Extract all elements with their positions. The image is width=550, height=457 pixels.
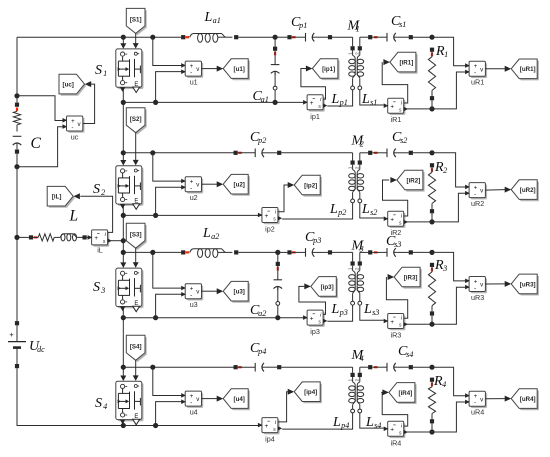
svg-text:+: +: [94, 235, 98, 242]
node row4 u- tap: [153, 423, 158, 428]
svg-text:+: +: [265, 423, 269, 430]
current measurement ip3: [303, 310, 327, 336]
svg-text:L: L: [332, 415, 341, 430]
wire iR1 signal: [382, 62, 408, 103]
svg-text:a1: a1: [261, 95, 269, 104]
node chain row4 bus: [121, 423, 126, 428]
svg-text:3: 3: [100, 286, 105, 295]
svg-text:[uc]: [uc]: [63, 82, 74, 89]
wire u1 - input: [156, 72, 186, 103]
capacitor Cs3: [372, 248, 432, 257]
label Ca2: [250, 303, 266, 318]
wire row1 top bus: [17, 36, 123, 38]
svg-text:iR4: iR4: [391, 438, 402, 447]
wire u1 + input: [153, 37, 185, 65]
svg-text:p2: p2: [257, 136, 266, 145]
current measurement ip2: [258, 208, 282, 234]
svg-text:-: -: [474, 191, 476, 198]
svg-text:4: 4: [442, 380, 446, 389]
svg-text:L: L: [361, 202, 370, 217]
node R1 bottom junction: [429, 106, 434, 111]
goto tag [ip2]: [288, 175, 322, 196]
wire dc bus middle segment: [16, 167, 18, 322]
label M3: [351, 239, 365, 254]
svg-text:[uR2]: [uR2]: [520, 187, 536, 194]
svg-text:a1: a1: [213, 16, 221, 25]
label R2: [434, 160, 447, 175]
label M4: [351, 348, 365, 363]
wire row1 to Cp: [275, 36, 287, 38]
goto tag [u1]: [217, 59, 250, 80]
label Cp1: [291, 15, 307, 30]
wire u2 + input: [153, 153, 185, 181]
wire gate S4: [133, 360, 139, 381]
voltage measurement uc: [63, 116, 85, 142]
svg-text:[u2]: [u2]: [234, 182, 245, 189]
wire uR3 + input: [432, 252, 469, 281]
goto tag [u3]: [217, 281, 250, 302]
svg-text:p3: p3: [312, 236, 321, 245]
switch S2: [116, 166, 144, 210]
wire uR2 + input: [432, 153, 469, 187]
svg-text:a2: a2: [211, 232, 219, 241]
svg-text:uR3: uR3: [471, 293, 484, 302]
svg-text:1: 1: [103, 69, 107, 78]
label S3: [93, 280, 105, 295]
transformer M2 secondary: [357, 153, 384, 218]
svg-text:-: -: [190, 185, 192, 192]
wire row2 bottom bus: [123, 214, 262, 216]
svg-text:p4: p4: [257, 347, 266, 356]
goto tag [iL]: [47, 186, 80, 207]
label Cp2: [250, 130, 266, 145]
svg-text:[iR4]: [iR4]: [399, 390, 413, 397]
svg-text:iL: iL: [97, 245, 103, 254]
svg-text:L: L: [204, 10, 213, 25]
voltage measurement uR4: [465, 391, 487, 416]
node Ca1 junction top: [273, 35, 278, 40]
svg-text:s1: s1: [399, 20, 406, 29]
label Lp1: [331, 92, 348, 107]
svg-text:[S3]: [S3]: [130, 231, 142, 238]
wire u3 - input: [156, 294, 186, 318]
wire u3 + input: [153, 252, 185, 288]
node row2 u+ tap: [150, 150, 155, 155]
inductor L: [54, 234, 91, 241]
wire iL signal: [80, 196, 112, 232]
voltage source Udc: [8, 321, 26, 368]
svg-text:u3: u3: [190, 300, 198, 309]
svg-text:p3: p3: [339, 308, 348, 317]
svg-text:[ip1]: [ip1]: [322, 66, 335, 73]
svg-text:ip3: ip3: [310, 327, 320, 336]
label Cs2: [392, 130, 407, 145]
wire uR3 - input: [404, 287, 470, 324]
pin label 1 M3: [347, 267, 352, 270]
goto tag [uR1]: [505, 59, 539, 80]
label M2: [351, 134, 365, 149]
wire uR2 - input: [404, 193, 470, 222]
node R3 bottom junction: [429, 322, 434, 327]
svg-text:2: 2: [443, 166, 447, 175]
wire chain S1-S2: [120, 87, 126, 165]
label S2: [93, 182, 105, 197]
wire dc bus bottom segment: [17, 368, 262, 425]
transformer M4 primary: [282, 367, 355, 429]
from tag [S1]: [126, 8, 146, 35]
wire u1 output: [202, 68, 218, 70]
wire row3 bottom bus: [123, 317, 307, 319]
label R1: [435, 44, 448, 59]
wire gate S1: [133, 33, 139, 48]
wire ip3 signal: [299, 286, 326, 314]
goto tag [uR3]: [505, 274, 539, 295]
wire uR4 + input: [432, 367, 469, 396]
svg-text:4: 4: [360, 354, 364, 363]
svg-text:ip4: ip4: [265, 435, 275, 444]
node iL chain junction: [121, 238, 126, 243]
node row3 u+ tap: [150, 250, 155, 255]
pin label 1 M4: [347, 378, 352, 381]
transformer M2 primary: [282, 153, 355, 219]
node Ca2 junction top: [275, 250, 280, 255]
label L: [69, 208, 79, 225]
wire row1 bottom bus: [123, 101, 307, 103]
svg-text:L: L: [331, 92, 340, 107]
wire iL to chain: [108, 240, 124, 242]
inductor La1: [190, 34, 275, 43]
svg-text:[iR1]: [iR1]: [400, 60, 414, 67]
svg-text:s4: s4: [406, 350, 413, 359]
svg-text:+: +: [390, 104, 394, 111]
goto tag [uc]: [59, 74, 91, 95]
svg-text:-: -: [474, 70, 476, 77]
svg-text:uR1: uR1: [471, 78, 484, 87]
svg-text:L: L: [329, 202, 338, 217]
svg-text:L: L: [202, 226, 211, 241]
svg-text:L: L: [363, 302, 372, 317]
capacitor C: [13, 136, 22, 166]
switch S3: [116, 268, 144, 312]
transformer M3 primary: [327, 252, 355, 321]
wire M1 to Cs: [360, 35, 378, 39]
wire u2 - input: [156, 187, 186, 215]
wire M2 to Cs: [360, 151, 378, 155]
inductor La2: [190, 249, 278, 258]
transformer M1 primary: [327, 37, 355, 106]
wire M3 to Cs: [360, 250, 378, 254]
voltage measurement u3: [181, 284, 203, 309]
node row1 u+ tap: [150, 35, 155, 40]
goto tag [ip1]: [306, 59, 340, 80]
svg-text:s2: s2: [400, 136, 407, 145]
wire row2 top bus: [123, 152, 233, 154]
svg-text:S: S: [93, 280, 100, 295]
wire uR4 - input: [404, 402, 470, 432]
wire gate S2: [133, 133, 139, 166]
label Ca1: [253, 89, 269, 104]
transformer M4 secondary: [357, 367, 384, 428]
svg-text:1: 1: [444, 50, 448, 59]
label Ls2: [361, 202, 377, 217]
wire row3 to Cp: [278, 251, 288, 253]
current measurement ip1: [303, 95, 327, 121]
capacitor Cs2: [372, 149, 432, 158]
label Lp2: [329, 202, 346, 217]
capacitor Cp2: [234, 149, 353, 158]
svg-text:[u4]: [u4]: [234, 396, 245, 403]
goto tag [iR1]: [383, 52, 417, 73]
svg-text:s4: s4: [374, 421, 381, 430]
voltage measurement uR2: [465, 183, 487, 208]
svg-text:p4: p4: [340, 421, 349, 430]
label Cs3: [386, 234, 401, 249]
svg-text:s1: s1: [370, 98, 377, 107]
wire ip1 signal: [301, 69, 326, 100]
wire u4 + input: [153, 367, 185, 395]
node Ca1 junction bottom: [273, 100, 278, 105]
wire uR4 output: [485, 398, 505, 400]
svg-text:p1: p1: [339, 98, 348, 107]
label Cp4: [250, 341, 266, 356]
wire uR1 output: [485, 68, 505, 70]
svg-text:L: L: [365, 415, 374, 430]
capacitor Ca2: [274, 252, 283, 317]
label Cp3: [305, 230, 321, 245]
label S4: [95, 396, 107, 411]
wire gate S3: [133, 248, 139, 268]
switch S1: [116, 49, 144, 93]
svg-text:+: +: [310, 315, 314, 322]
node R3 top junction: [429, 250, 434, 255]
svg-text:s2: s2: [370, 208, 377, 217]
node row2 u- tap: [153, 213, 158, 218]
svg-text:ip2: ip2: [265, 225, 275, 234]
resistor R2: [428, 163, 435, 222]
label Udc: [29, 339, 45, 354]
svg-text:+: +: [310, 100, 314, 107]
resistor R3: [428, 263, 435, 324]
node chain row2 bus: [121, 213, 126, 218]
node R4 top junction: [429, 365, 434, 370]
capacitor Cs4: [372, 363, 432, 372]
svg-text:[u3]: [u3]: [234, 289, 245, 296]
svg-text:-: -: [190, 292, 192, 299]
resistor of L branch: [33, 234, 54, 241]
wire chain S4 bottom: [122, 420, 124, 426]
label C: [31, 135, 42, 152]
voltage measurement uR1: [465, 61, 487, 86]
current measurement ip4: [258, 418, 282, 444]
resistor of RC branch (in-line on dc bus): [13, 103, 20, 132]
pin label 2 M3: [355, 267, 360, 270]
wire uR3 output: [485, 283, 505, 285]
svg-text:uR2: uR2: [471, 199, 484, 208]
label Ls3: [363, 302, 379, 317]
label Lp3: [331, 302, 348, 317]
label Ls4: [365, 415, 381, 430]
current measurement iR4: [384, 421, 408, 447]
svg-text:iR1: iR1: [391, 115, 402, 124]
wire chain S3-S4: [120, 307, 126, 382]
svg-text:[uR3]: [uR3]: [520, 281, 536, 288]
svg-text:[S2]: [S2]: [130, 116, 142, 123]
wire iR3 signal: [386, 277, 407, 318]
voltage measurement u1: [181, 61, 203, 86]
voltage measurement u2: [181, 177, 203, 202]
wire ip2 signal: [278, 185, 288, 212]
wire uc output: [83, 84, 95, 123]
svg-text:s3: s3: [394, 240, 401, 249]
wire row4 top bus: [123, 366, 233, 368]
svg-text:iR3: iR3: [391, 331, 402, 340]
svg-text:2: 2: [360, 140, 364, 149]
wire u3 output: [202, 290, 218, 292]
node chain row1 top: [121, 35, 126, 40]
voltage measurement u4: [181, 391, 203, 416]
resistor R4: [428, 378, 435, 432]
wire uc + sense: [17, 96, 67, 121]
voltage measurement uR3: [465, 277, 487, 302]
resistor R1: [428, 48, 435, 109]
svg-text:[ip4]: [ip4]: [304, 389, 317, 396]
wire M4 to Cs: [360, 365, 378, 369]
node row3 u- tap: [153, 315, 158, 320]
wire row1 top lead: [123, 35, 189, 39]
wire u2 output: [202, 183, 218, 185]
svg-text:L: L: [69, 208, 79, 225]
node chain row3 top: [121, 250, 126, 255]
current measurement iR1: [384, 98, 408, 124]
svg-text:u4: u4: [190, 408, 198, 417]
wire ip4 signal: [278, 392, 288, 422]
wire row3 top lead: [123, 250, 189, 254]
wire iR2 signal: [383, 180, 408, 216]
wire uR2 output: [485, 189, 505, 192]
svg-text:[S4]: [S4]: [130, 344, 142, 351]
svg-text:[S1]: [S1]: [130, 17, 142, 24]
svg-text:-: -: [71, 124, 73, 131]
svg-text:4: 4: [103, 402, 107, 411]
label S1: [95, 63, 107, 78]
current measurement iR3: [384, 314, 408, 340]
from tag [S2]: [126, 108, 146, 135]
node R1 top junction: [429, 35, 434, 40]
pin label 2 M1: [355, 52, 360, 55]
pin label 2 M4: [355, 378, 360, 381]
pin label 1 M1: [347, 52, 352, 55]
wire uR1 + input: [432, 37, 469, 65]
wire dc bus top segment: [16, 37, 18, 102]
label Cs1: [391, 14, 406, 29]
label R3: [434, 258, 447, 273]
pin label 2 M2: [355, 166, 360, 169]
capacitor Ca1: [271, 37, 280, 102]
svg-text:L: L: [361, 92, 370, 107]
svg-text:S: S: [95, 63, 102, 78]
goto tag [iR4]: [382, 383, 416, 404]
goto tag [u4]: [217, 389, 250, 410]
node row1 u- tap: [153, 100, 158, 105]
wire uc - sense: [17, 127, 67, 167]
svg-text:-: -: [474, 400, 476, 407]
label Cs4: [398, 344, 413, 359]
svg-text:S: S: [95, 396, 102, 411]
svg-text:[iR3]: [iR3]: [404, 274, 418, 281]
from tag [S3]: [126, 223, 146, 250]
label Ls1: [361, 92, 377, 107]
capacitor Cp4: [234, 363, 353, 372]
goto tag [ip4]: [288, 382, 322, 403]
node chain row2 top: [121, 150, 126, 155]
svg-text:p1: p1: [298, 21, 307, 30]
svg-text:+: +: [390, 217, 394, 224]
capacitor Cp1: [287, 33, 352, 42]
label Lp4: [332, 415, 349, 430]
node chain row4 top: [121, 365, 126, 370]
svg-text:dc: dc: [37, 345, 45, 354]
node chain row3 bus: [121, 315, 126, 320]
node dc bus / snubber top junction: [14, 93, 19, 98]
goto tag [iR3]: [388, 267, 422, 288]
svg-text:u2: u2: [190, 193, 198, 202]
svg-text:[ip2]: [ip2]: [304, 182, 317, 189]
node Ca2 junction bottom: [275, 315, 280, 320]
label R4: [433, 374, 446, 389]
svg-text:s3: s3: [372, 308, 379, 317]
node R2 top junction: [429, 150, 434, 155]
from tag [S4]: [126, 335, 146, 362]
node chain row1 bus: [121, 100, 126, 105]
capacitor Cp3: [287, 248, 352, 257]
pin label 1 M2: [347, 166, 352, 169]
svg-text:S: S: [93, 182, 100, 197]
transformer M1 secondary: [357, 37, 384, 105]
svg-text:+: +: [390, 319, 394, 326]
svg-text:u1: u1: [190, 78, 198, 87]
svg-text:+: +: [9, 330, 14, 339]
goto tag [iR2]: [390, 170, 424, 191]
svg-text:[uR4]: [uR4]: [520, 396, 536, 403]
goto tag [ip3]: [304, 277, 338, 298]
goto tag [uR4]: [505, 389, 539, 410]
wire L branch lead: [17, 235, 37, 239]
label M1: [347, 19, 361, 34]
capacitor Cs1: [372, 33, 432, 42]
svg-text:p2: p2: [337, 208, 346, 217]
switch S4: [116, 381, 144, 425]
svg-text:[ip3]: [ip3]: [321, 284, 334, 291]
wire chain S1 top: [120, 37, 126, 49]
svg-text:-: -: [474, 285, 476, 292]
svg-text:3: 3: [442, 264, 447, 273]
svg-text:1: 1: [356, 25, 360, 34]
node row4 u+ tap: [150, 365, 155, 370]
goto tag [u2]: [217, 174, 250, 195]
svg-text:[uR1]: [uR1]: [520, 66, 536, 73]
goto tag [uR2]: [505, 180, 539, 201]
transformer M3 secondary: [357, 252, 384, 320]
node R2 bottom junction: [429, 219, 434, 224]
node R4 bottom junction: [429, 429, 434, 434]
svg-text:+: +: [265, 213, 269, 220]
svg-text:[u1]: [u1]: [234, 66, 245, 73]
wire iR4 signal: [381, 392, 408, 426]
label La1: [204, 10, 221, 25]
svg-text:a2: a2: [258, 309, 266, 318]
svg-text:C: C: [31, 135, 42, 152]
label La2: [202, 226, 219, 241]
